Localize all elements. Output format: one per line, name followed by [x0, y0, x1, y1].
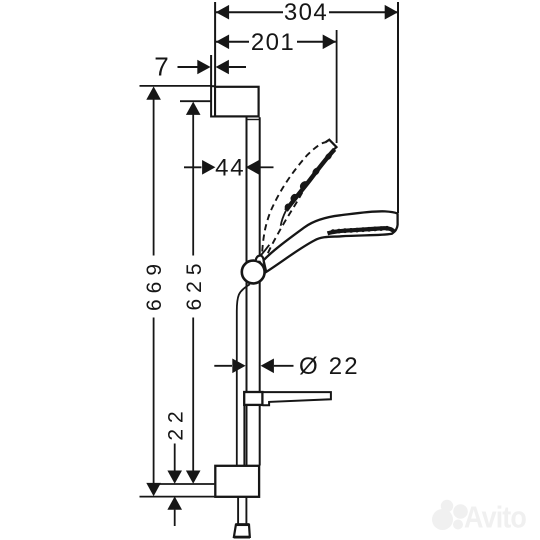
hanging shower body: [264, 211, 398, 272]
svg-text:625: 625: [183, 257, 206, 310]
svg-text:22: 22: [165, 405, 188, 440]
hose below bracket: [237, 497, 239, 524]
slider nub: [256, 256, 264, 262]
svg-text:669: 669: [143, 258, 166, 311]
svg-text:44: 44: [215, 154, 245, 181]
dimension 7: [154, 51, 246, 81]
hanging head spray band: [328, 228, 395, 233]
raised handle solid edge near nub: [261, 245, 270, 256]
dimension 22 (bottom): [165, 405, 188, 526]
dimension 44: [184, 154, 274, 181]
extension line left of 7 gap: [210, 55, 212, 86]
hose from slider: [237, 284, 250, 465]
Avito watermark: [432, 500, 526, 535]
top bracket body: [215, 87, 259, 117]
extension lines bottom: [155, 483, 214, 485]
dashed outline raised handle outer: [262, 142, 325, 251]
svg-text:304: 304: [284, 0, 328, 26]
dimension 304: [216, 0, 398, 26]
dashed outline raised handle inner: [268, 190, 304, 253]
wall plate: [211, 86, 215, 116]
extension line 625 top: [180, 100, 211, 102]
svg-text:Avito: Avito: [464, 500, 526, 535]
extension line wall face (top, shared by 304/201): [214, 2, 216, 86]
dimension 625: [183, 102, 206, 484]
raised head cap: [325, 140, 336, 151]
extension line right (304, head right edge): [397, 2, 399, 213]
extra inner line below soap dish: [243, 406, 245, 465]
extension line 201 (to raised head): [336, 30, 338, 143]
svg-text:201: 201: [251, 29, 295, 56]
hose end fitting: [234, 525, 250, 537]
soap dish clamp: [244, 392, 262, 405]
dimension 201: [216, 29, 336, 56]
dimension diameter 22: [214, 353, 360, 380]
slider ball: [242, 261, 265, 284]
extension line 669 top: [140, 85, 211, 87]
rail tube: [246, 117, 248, 465]
svg-text:Ø 22: Ø 22: [299, 353, 360, 380]
raised head spray band: [286, 149, 335, 210]
dimension 669: [143, 86, 166, 496]
soap dish arm: [262, 392, 331, 405]
bottom bracket: [215, 466, 259, 497]
svg-text:7: 7: [154, 51, 168, 81]
